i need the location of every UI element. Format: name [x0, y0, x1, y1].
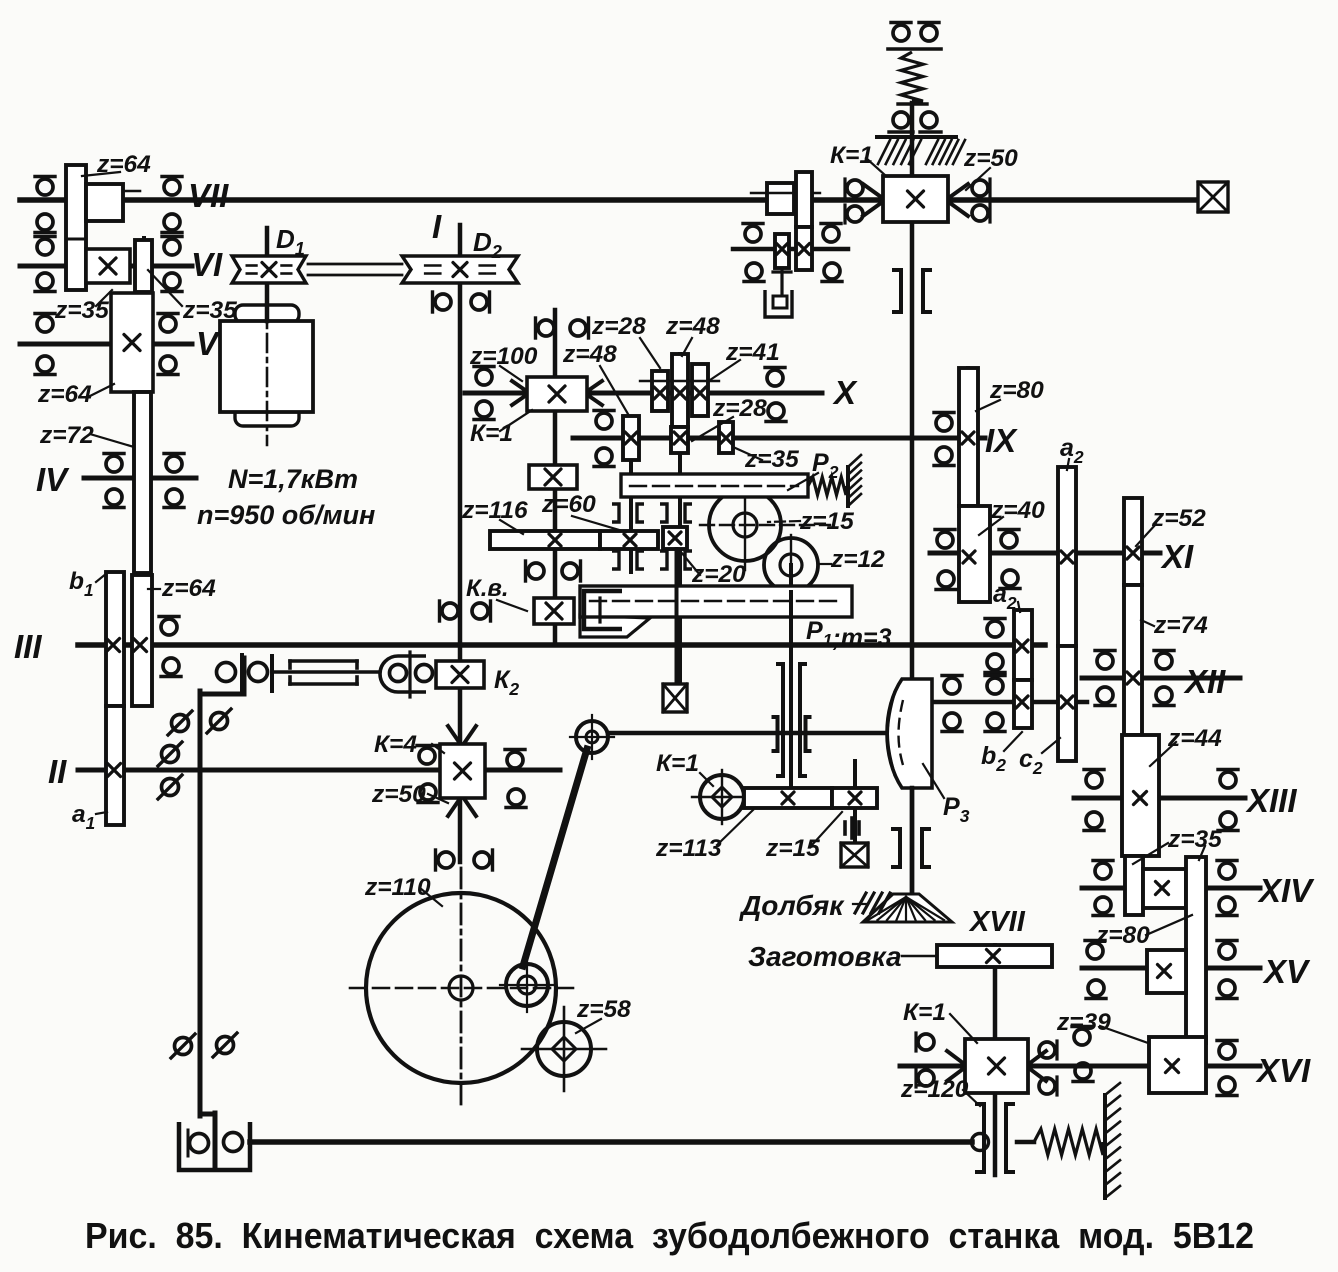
svg-text:z=40: z=40	[990, 497, 1045, 524]
svg-text:z=116: z=116	[461, 497, 528, 524]
svg-text:z=60: z=60	[541, 491, 596, 518]
svg-text:z=15: z=15	[765, 835, 820, 862]
svg-text:z=44: z=44	[1167, 725, 1222, 752]
svg-text:z=48: z=48	[562, 341, 617, 368]
svg-text:z=35: z=35	[182, 297, 237, 324]
svg-text:z=74: z=74	[1153, 612, 1208, 639]
svg-text:К=1: К=1	[830, 142, 873, 169]
svg-text:z=50: z=50	[963, 145, 1018, 172]
svg-text:z=15: z=15	[799, 508, 854, 535]
svg-text:VII: VII	[188, 177, 229, 214]
svg-text:XIV: XIV	[1257, 872, 1315, 909]
svg-text:z=50: z=50	[371, 781, 426, 808]
svg-text:z=35: z=35	[744, 446, 799, 473]
svg-text:X: X	[832, 374, 858, 411]
svg-text:z=64: z=64	[96, 151, 151, 178]
svg-text:Рис. 85. Кинематическая схе: Рис. 85. Кинематическая схема зубодолбеж…	[85, 1215, 1254, 1256]
svg-text:II: II	[48, 753, 67, 790]
svg-text:IV: IV	[36, 461, 70, 498]
svg-text:z=80: z=80	[989, 377, 1044, 404]
svg-text:z=20: z=20	[691, 561, 746, 588]
svg-text:XVII: XVII	[968, 906, 1026, 938]
svg-text:z=41: z=41	[725, 339, 780, 366]
svg-text:Долбяк: Долбяк	[739, 890, 845, 921]
svg-text:z=64: z=64	[161, 575, 216, 602]
svg-text:К=1: К=1	[903, 999, 946, 1026]
svg-text:z=35: z=35	[54, 297, 109, 324]
svg-text:III: III	[14, 628, 42, 665]
svg-text:VI: VI	[191, 246, 223, 283]
svg-text:К.в.: К.в.	[466, 575, 509, 602]
svg-text:z=100: z=100	[469, 343, 538, 370]
svg-text:XVI: XVI	[1255, 1052, 1311, 1089]
svg-text:n=950 об/мин: n=950 об/мин	[197, 500, 375, 530]
svg-text:z=110: z=110	[364, 874, 431, 901]
svg-text:z=72: z=72	[39, 422, 94, 449]
svg-text:XIII: XIII	[1245, 782, 1297, 819]
svg-text:XV: XV	[1262, 953, 1311, 990]
svg-text:N=1,7кВт: N=1,7кВт	[228, 464, 358, 494]
svg-text:z=39: z=39	[1056, 1009, 1111, 1036]
svg-text:XII: XII	[1183, 663, 1226, 700]
svg-text:z=28: z=28	[712, 395, 767, 422]
svg-text:I: I	[432, 208, 442, 245]
svg-text:V: V	[196, 325, 221, 362]
svg-text:z=64: z=64	[37, 381, 92, 408]
svg-text:К=4: К=4	[374, 731, 417, 758]
svg-text:К=1: К=1	[656, 750, 699, 777]
svg-text:z=48: z=48	[665, 313, 720, 340]
svg-text:К=1: К=1	[470, 420, 513, 447]
svg-text:z=113: z=113	[655, 835, 722, 862]
svg-text:z=120: z=120	[900, 1076, 969, 1103]
svg-text:XI: XI	[1160, 538, 1194, 575]
svg-text:z=35: z=35	[1167, 826, 1222, 853]
svg-text:Заготовка: Заготовка	[748, 941, 902, 972]
svg-text:z=28: z=28	[591, 313, 646, 340]
svg-text:z=58: z=58	[576, 996, 631, 1023]
svg-text:z=80: z=80	[1095, 922, 1150, 949]
svg-text:z=12: z=12	[830, 546, 885, 573]
svg-text:z=52: z=52	[1151, 505, 1206, 532]
svg-text:IX: IX	[985, 422, 1018, 459]
